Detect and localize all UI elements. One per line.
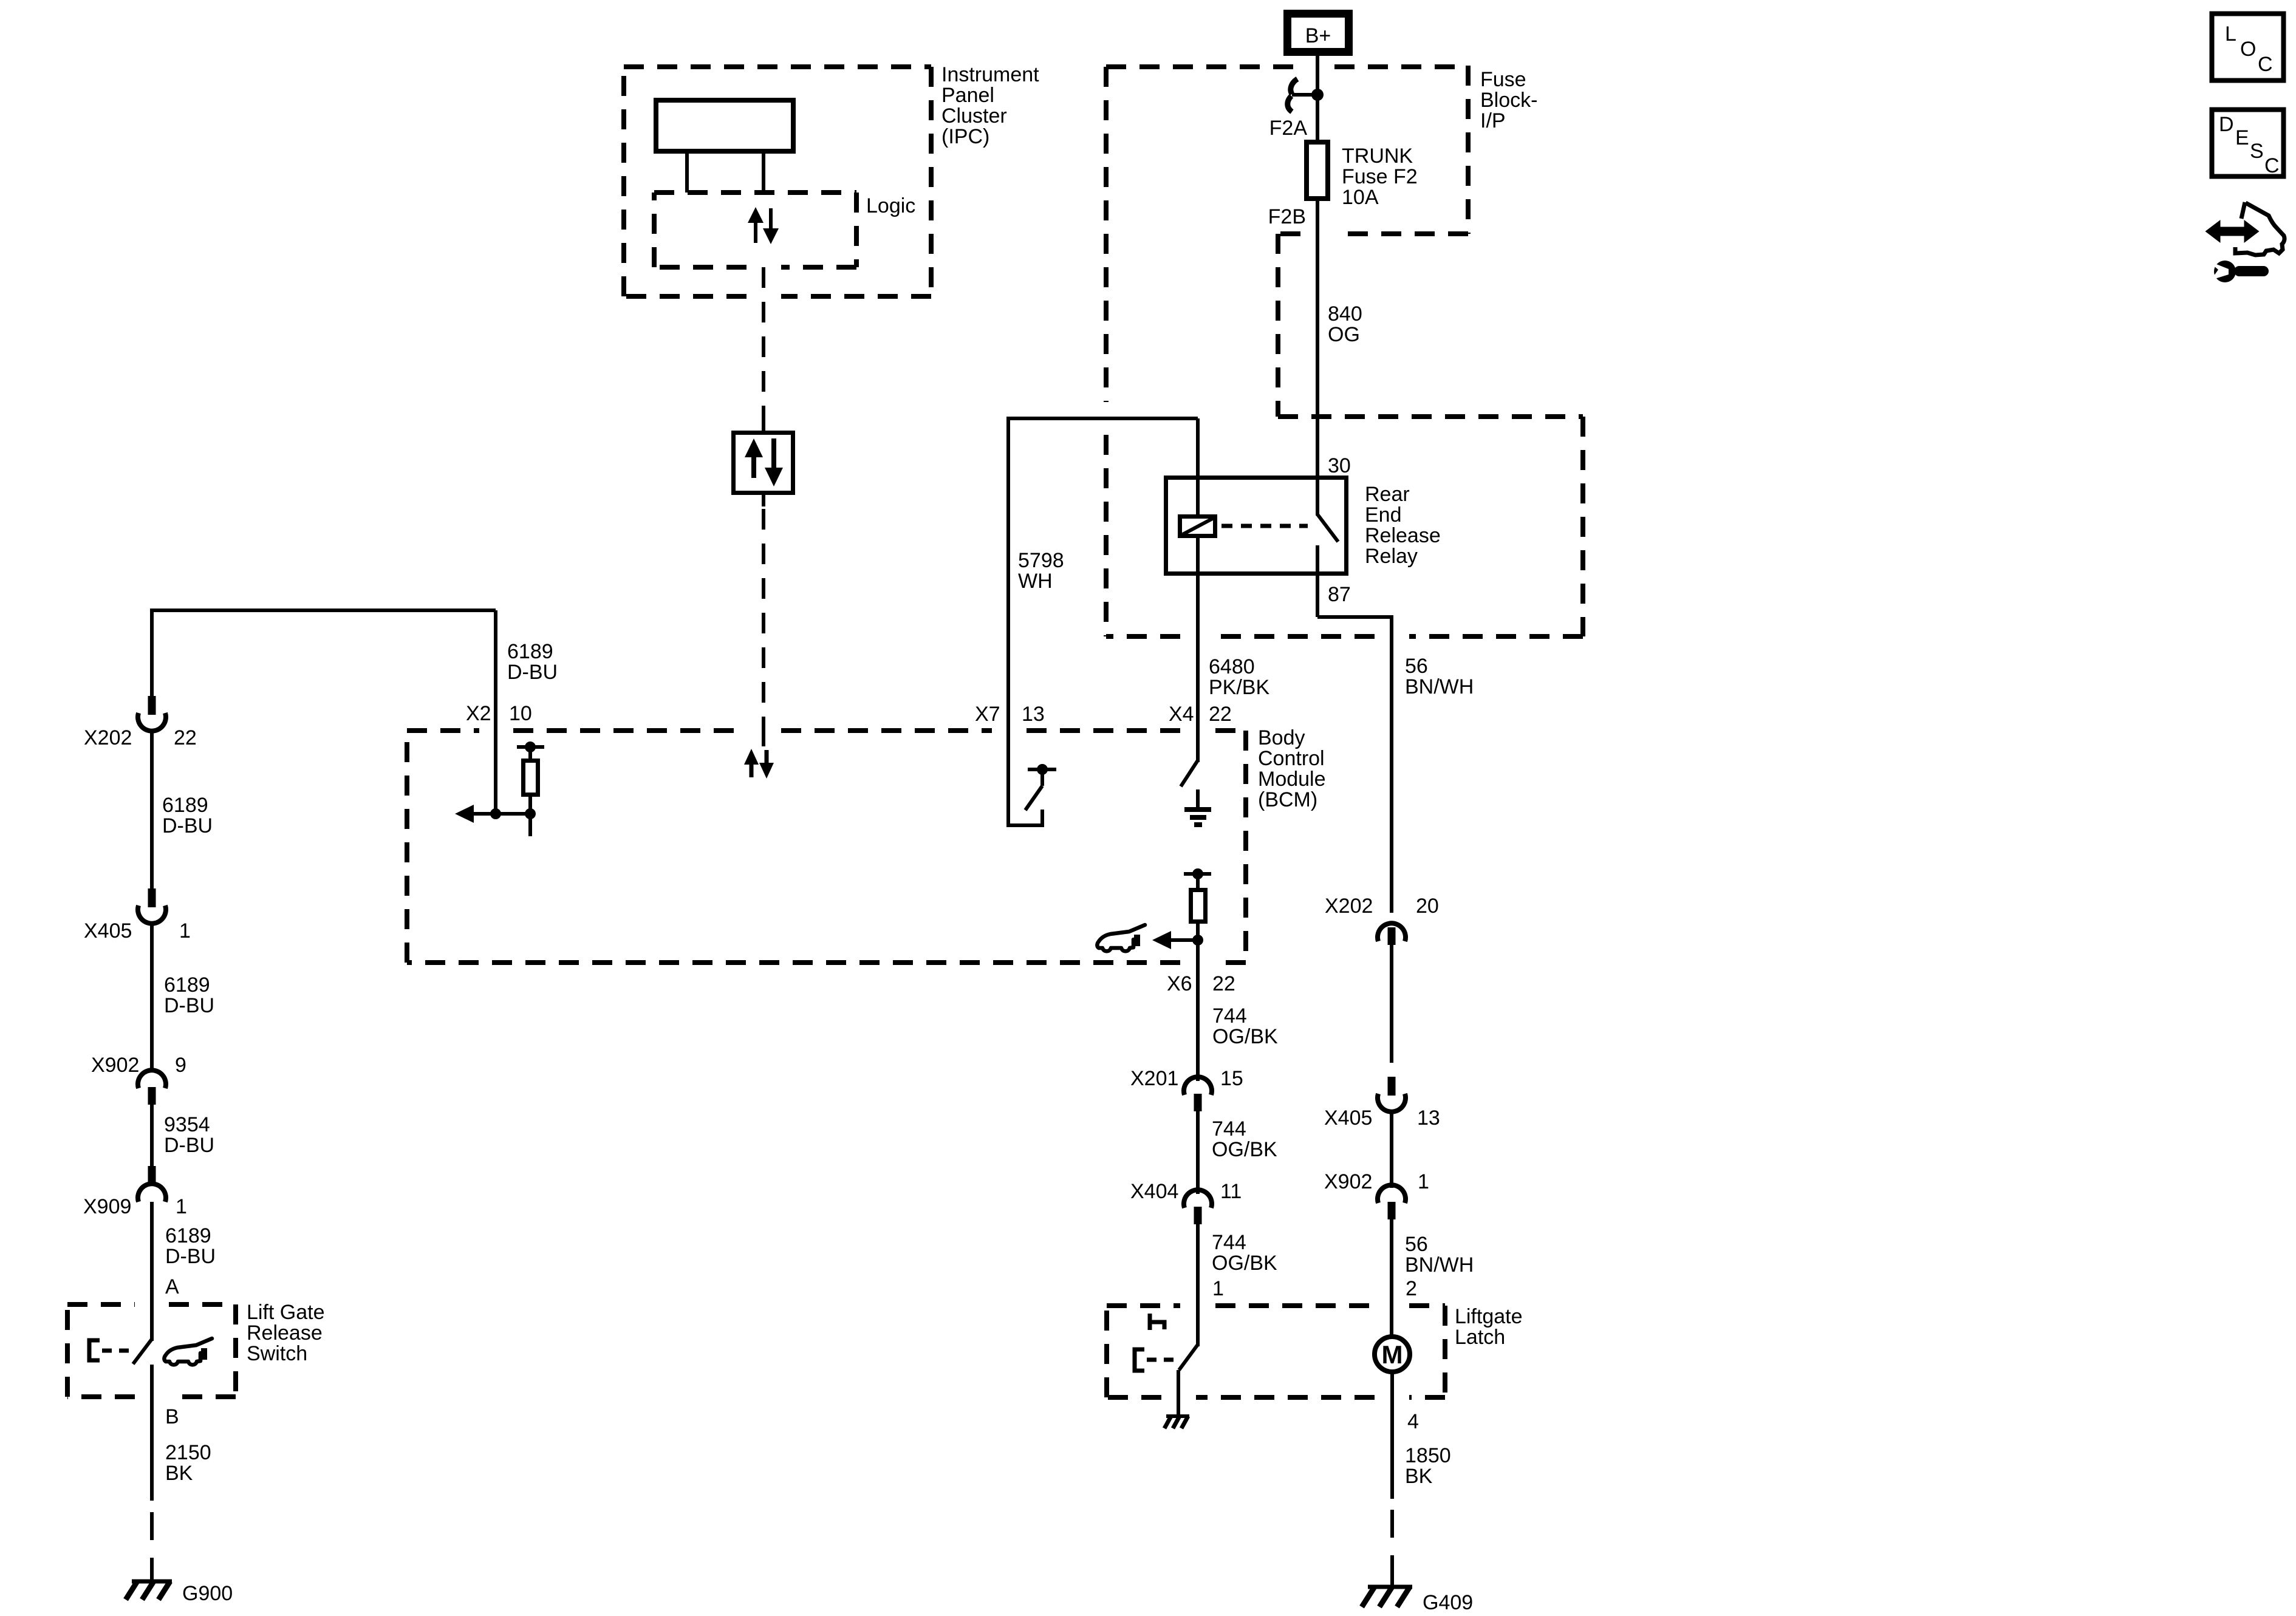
latch internal ground [1164,1416,1189,1428]
svg-text:22: 22 [1212,972,1235,995]
latch bracket [1135,1349,1144,1371]
svg-text:X902: X902 [91,1054,139,1077]
wire 5798 WH horizontal from BCM X7 [1008,418,1198,732]
svg-text:Release: Release [247,1321,323,1345]
stub to resistor X6 [1196,874,1200,890]
switch bracket dashed link [102,1349,132,1353]
relay coil [1180,517,1215,536]
svg-text:D-BU: D-BU [165,1245,216,1268]
svg-text:Instrument: Instrument [941,63,1039,86]
connector X405 pin 13 [1378,1077,1406,1112]
DESC reference icon box [2212,110,2284,178]
wire junction tick [1292,93,1317,97]
body control module BCM dashed box top edge [407,728,1246,733]
internal arrow X6 [1152,931,1171,949]
liftgate latch dashed box [1107,1306,1445,1397]
svg-text:6189: 6189 [507,640,553,663]
svg-text:X202: X202 [1325,895,1373,918]
svg-text:BN/WH: BN/WH [1405,1253,1474,1277]
svg-text:D-BU: D-BU [162,814,213,837]
relay pin 87 stub [1316,545,1319,617]
svg-text:Rear: Rear [1365,483,1410,506]
svg-text:G409: G409 [1423,1591,1473,1614]
car icon lift gate switch [164,1338,212,1365]
connector X202 pin 20 [1378,923,1406,945]
box up arrow [745,438,763,478]
svg-text:Relay: Relay [1365,545,1418,568]
svg-text:1: 1 [176,1195,187,1218]
svg-text:OG/BK: OG/BK [1212,1025,1278,1048]
svg-text:BK: BK [1405,1465,1433,1488]
svg-text:Release: Release [1365,524,1441,547]
svg-text:PK/BK: PK/BK [1209,676,1269,699]
fuse block left edge [1104,67,1109,402]
wire F2B to relay pin 30 [1316,199,1319,516]
svg-text:OG/BK: OG/BK [1212,1252,1277,1275]
svg-text:I/P: I/P [1480,109,1506,132]
wire 6189 D-BU segment 2 [150,924,154,1072]
svg-text:B+: B+ [1305,24,1331,47]
BCM X7 switch sense hook [1008,731,1042,825]
motor M liftgate latch [1375,1337,1410,1372]
dashed serial data wire IPC to BCM [762,267,765,423]
logic up arrow [748,207,764,243]
svg-text:X909: X909 [83,1195,131,1218]
fuse block right edge [1466,66,1471,234]
relay chamber right edge [1580,417,1585,636]
svg-text:11: 11 [1220,1180,1242,1203]
svg-text:X202: X202 [84,726,132,749]
power feed B+ terminal [1288,14,1349,52]
latch switch arm [1179,1345,1198,1370]
clip symbol at F2A [1288,79,1297,112]
svg-text:1: 1 [179,919,191,943]
svg-text:F2A: F2A [1269,117,1308,140]
ground G900 [126,1570,172,1600]
instrument panel cluster IPC dashed box [624,67,931,296]
wire 56 BN/WH to latch motor [1390,1219,1393,1337]
wire B+ to fuse F2A [1316,56,1319,141]
lift gate release switch dashed box [67,1304,236,1397]
svg-text:BK: BK [165,1462,193,1485]
svg-text:E: E [2235,126,2249,149]
svg-text:Panel: Panel [941,84,994,107]
svg-text:G900: G900 [182,1582,233,1605]
node dot X2 pull-up [525,742,536,752]
internal signal line X2 [473,812,530,816]
svg-text:S: S [2250,140,2264,163]
svg-text:F2B: F2B [1268,205,1306,228]
svg-text:2: 2 [1406,1277,1417,1300]
relay chamber bottom edge [1409,634,1583,639]
svg-text:20: 20 [1416,895,1439,918]
svg-text:Lift Gate: Lift Gate [247,1301,325,1324]
wire X6 output [1196,921,1200,1081]
svg-text:840: 840 [1328,302,1362,326]
svg-text:B: B [165,1405,179,1428]
BCM internal up arrow [744,749,759,777]
svg-text:OG: OG [1328,323,1360,346]
node dot X6 top [1192,868,1203,879]
svg-text:56: 56 [1405,1233,1428,1256]
wire switch to pin B [150,1365,154,1501]
logic dashed box [654,193,856,267]
X4 internal switch arm [1181,760,1198,786]
liftgate car icon BCM [1097,925,1145,951]
svg-text:D-BU: D-BU [507,661,558,684]
svg-text:WH: WH [1018,570,1053,593]
stub to resistor [528,747,532,760]
svg-text:Fuse: Fuse [1480,68,1526,91]
svg-text:9354: 9354 [164,1113,210,1136]
svg-text:744: 744 [1212,1004,1247,1028]
svg-text:X7: X7 [975,703,1000,726]
svg-text:Switch: Switch [247,1342,307,1365]
serial data arrows box [734,433,793,493]
svg-text:C: C [2258,53,2273,76]
svg-text:Control: Control [1258,747,1325,770]
connector X201 pin 15 [1184,1077,1212,1111]
svg-text:X405: X405 [1324,1106,1372,1130]
svg-text:(IPC): (IPC) [941,125,989,148]
switch bracket [89,1340,100,1360]
relay coil dashed actuator link [1221,524,1308,528]
IPC block leg right [762,154,765,193]
latch striker icon [1150,1314,1164,1330]
svg-text:6189: 6189 [165,1224,211,1247]
BCM right edge [1243,731,1248,963]
BCM bottom edge [407,960,1246,965]
fuse F2 body [1307,142,1328,199]
svg-text:Block-: Block- [1480,89,1537,112]
connector X902 pin 1 [1378,1185,1406,1219]
node F2A junction [1311,89,1324,101]
svg-text:Fuse F2: Fuse F2 [1342,165,1418,188]
svg-text:6189: 6189 [162,794,208,817]
wire 56 BN/WH lower [1390,944,1393,1063]
switch arm lift gate [133,1339,152,1364]
X7 switch contact dot [1037,764,1048,775]
svg-text:Cluster: Cluster [941,104,1007,128]
svg-text:M: M [1382,1340,1403,1369]
node dot X6 junction [1192,935,1203,946]
connector end view icon [2207,202,2284,255]
svg-text:2150: 2150 [165,1441,211,1464]
internal signal line X6 [1170,938,1198,942]
connector X909 pin 1 [138,1166,166,1202]
X7 switch stub [1040,769,1044,786]
fuse block lower edge [1334,231,1468,236]
wire 9354 D-BU [150,1105,154,1166]
svg-text:X201: X201 [1130,1067,1178,1090]
svg-text:X902: X902 [1324,1170,1372,1193]
svg-text:30: 30 [1328,454,1351,477]
wire relay coil top feed [1196,418,1200,517]
BCM internal down arrow [759,750,774,779]
BCM left edge [405,731,409,963]
svg-text:22: 22 [174,726,197,749]
wire relay coil to BCM X4 [1196,536,1200,762]
svg-text:TRUNK: TRUNK [1342,145,1413,168]
svg-text:(BCM): (BCM) [1258,788,1317,811]
X7 switch arm [1025,786,1042,810]
svg-text:L: L [2225,22,2236,46]
relay chamber top edge [1278,414,1583,419]
BCM X2 pull-up node bar [517,745,544,749]
resistor lower lead [528,794,532,836]
relay K: rear end release relay box [1166,478,1347,574]
svg-text:OG/BK: OG/BK [1212,1138,1277,1161]
svg-text:87: 87 [1328,583,1351,606]
fuse block inner left edge [1276,234,1280,417]
svg-text:X404: X404 [1130,1180,1178,1203]
dashed ground lead G900 [150,1512,154,1572]
wire 744 segment 3 to latch [1196,1224,1200,1346]
svg-text:Logic: Logic [866,194,915,217]
wire 87 to X202-20 [1317,617,1392,913]
internal arrow X2 [455,805,474,823]
svg-text:744: 744 [1212,1231,1246,1254]
wire 56 BN/WH segment [1390,1112,1393,1188]
connector X404 pin 11 [1184,1190,1212,1224]
svg-text:D: D [2219,113,2234,136]
wire motor to pin 4 [1390,1372,1394,1499]
svg-text:1: 1 [1212,1277,1224,1300]
resistor R X2 internal [524,761,538,795]
svg-text:Latch: Latch [1455,1326,1505,1349]
svg-text:BN/WH: BN/WH [1405,675,1474,698]
svg-text:Body: Body [1258,726,1305,749]
latch bracket dashed link [1147,1358,1177,1362]
wire 6189 D-BU segment 1 [150,731,154,888]
IPC block leg left [685,154,689,193]
wire 744 segment 2 [1196,1111,1200,1194]
svg-text:22: 22 [1209,703,1232,726]
svg-text:1: 1 [1418,1170,1429,1193]
wrench icon [2207,261,2269,282]
fuse block I/P dashed outline top edge [1106,64,1300,69]
svg-text:9: 9 [175,1054,186,1077]
latch switch ground post [1177,1370,1180,1415]
X7 switch contact bar [1028,768,1056,771]
svg-text:X2: X2 [466,702,491,725]
dashed serial data wire box to BCM [762,493,765,506]
svg-text:13: 13 [1417,1106,1440,1130]
svg-text:D-BU: D-BU [164,994,214,1017]
dashed ground lead G409 [1390,1510,1394,1574]
node dot X2 wire junction [490,808,501,819]
svg-text:X4: X4 [1169,703,1194,726]
svg-text:X405: X405 [84,919,132,943]
connector X902 pin 9 [138,1070,166,1105]
svg-text:Module: Module [1258,768,1326,791]
svg-text:X6: X6 [1167,972,1192,995]
connector X405 pin 1 [138,888,166,924]
IPC display block [656,100,793,151]
svg-text:13: 13 [1022,703,1045,726]
svg-text:15: 15 [1220,1067,1243,1090]
svg-text:6189: 6189 [164,973,210,997]
node dot X2 junction [525,808,536,819]
LOC reference icon box [2212,14,2284,81]
svg-text:10: 10 [509,702,532,725]
svg-text:4: 4 [1407,1410,1419,1433]
svg-text:Liftgate: Liftgate [1455,1305,1523,1328]
internal ground under X4 switch [1184,789,1211,825]
box down arrow [765,438,783,486]
svg-text:C: C [2264,154,2280,177]
connector X202 pin 22 [138,696,166,731]
resistor R X6 internal [1191,890,1206,922]
svg-text:56: 56 [1405,655,1428,678]
BCM X6 driver node bar [1184,872,1211,876]
ground G409 [1362,1573,1412,1607]
svg-text:O: O [2240,38,2256,61]
svg-text:10A: 10A [1342,186,1379,209]
svg-text:End: End [1365,503,1402,527]
svg-text:6480: 6480 [1209,655,1255,678]
svg-text:5798: 5798 [1018,549,1064,572]
relay switch contact arm [1317,514,1338,542]
svg-text:1850: 1850 [1405,1444,1451,1467]
svg-text:744: 744 [1212,1117,1246,1140]
wire X2-10 input [494,610,497,814]
svg-text:D-BU: D-BU [164,1134,214,1157]
svg-text:A: A [165,1275,179,1298]
wire 6189 D-BU to switch [150,1202,154,1341]
wire lift gate switch signal top run [152,610,496,696]
logic down arrow [763,208,779,244]
